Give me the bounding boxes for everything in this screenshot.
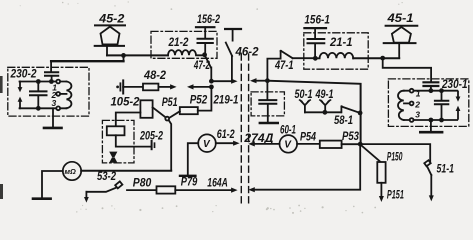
wire 48-2 bbox=[123, 86, 143, 88]
transformer winding 230-2 bbox=[67, 82, 72, 109]
coupling capacitor 230-1 bbox=[424, 82, 439, 90]
switch 47-1 bbox=[267, 50, 315, 81]
wire arrow 274Д to divider bbox=[243, 133, 279, 146]
svg-text:53-2: 53-2 bbox=[97, 171, 116, 183]
svg-text:21-1: 21-1 bbox=[329, 37, 352, 49]
resistor P150 bbox=[377, 152, 402, 183]
svg-text:P150: P150 bbox=[387, 152, 403, 164]
node top bus bbox=[49, 79, 54, 84]
tap 2 bbox=[51, 90, 67, 100]
wire arrow 164A to divider bbox=[175, 177, 237, 192]
svg-text:P151: P151 bbox=[387, 190, 404, 202]
resistor P80 bbox=[133, 177, 176, 193]
wire arrow from 47-1 to divider bbox=[250, 78, 267, 83]
arrow down 230-1 bbox=[456, 92, 461, 102]
svg-text:P51: P51 bbox=[162, 97, 178, 109]
svg-text:46-2: 46-2 bbox=[235, 47, 260, 59]
wire 205-2 to capacitor bbox=[116, 135, 150, 146]
wire jog down bbox=[123, 55, 125, 61]
svg-text:156-2: 156-2 bbox=[197, 14, 220, 26]
capacitor C 230-1 bbox=[435, 88, 448, 122]
svg-text:3: 3 bbox=[415, 110, 420, 120]
arrow up 230-1 bbox=[456, 106, 461, 119]
resistor P52 bbox=[169, 87, 211, 118]
arrow down 230-2 bbox=[18, 82, 23, 93]
svg-text:P80: P80 bbox=[133, 177, 152, 189]
contact 49-1 bbox=[315, 89, 334, 112]
wire meter to ground bbox=[42, 171, 63, 197]
voltmeter 60-1 bbox=[280, 125, 298, 153]
lamp X symbol bbox=[109, 152, 117, 163]
source symbol 48-2 bbox=[116, 80, 123, 93]
coupling capacitor bbox=[45, 61, 58, 81]
svg-text:1: 1 bbox=[416, 89, 421, 99]
wire arrow 48-2 to trunk bbox=[158, 84, 176, 89]
wire bottom bus 230-2 bbox=[20, 107, 67, 109]
switch 53-2 bbox=[84, 171, 122, 203]
wire relay to contact P51 bbox=[153, 107, 166, 117]
svg-text:58-1: 58-1 bbox=[334, 115, 353, 127]
svg-text:105-2: 105-2 bbox=[111, 96, 141, 108]
tap 3 bbox=[56, 106, 60, 110]
capacitor 205-2 bbox=[152, 141, 155, 149]
switch 51-1 bbox=[424, 160, 454, 201]
ground 230-2 bbox=[44, 108, 62, 128]
antenna 45-1 bbox=[384, 13, 418, 58]
node bottom bus bbox=[429, 118, 434, 123]
wire to coupling capacitor bbox=[51, 60, 123, 62]
svg-text:164А: 164А bbox=[207, 177, 228, 189]
wire trunk right half bbox=[267, 81, 360, 144]
svg-text:61-2: 61-2 bbox=[217, 129, 235, 141]
wire P51 down to meter line bbox=[169, 120, 172, 171]
svg-text:2: 2 bbox=[414, 100, 420, 110]
terminal bar P79 bbox=[180, 176, 198, 189]
svg-text:21-2: 21-2 bbox=[168, 37, 189, 49]
wire feed to 230-1 bbox=[383, 58, 431, 82]
wire contacts bus bbox=[305, 111, 341, 113]
box 230-1 bbox=[388, 79, 468, 127]
wire arrow P151 bbox=[379, 183, 404, 202]
svg-text:P53: P53 bbox=[342, 131, 359, 143]
wire bottom bus 230-1 bbox=[404, 119, 457, 121]
node coil/cap junction bbox=[202, 52, 207, 57]
wire arrow right to divider bbox=[211, 79, 237, 84]
transformer winding 230-1 bbox=[398, 91, 404, 120]
wire P54 to node P53 bbox=[342, 143, 358, 145]
wire 61-2 to terminal bbox=[188, 143, 198, 174]
coil 21-2 bbox=[168, 50, 205, 55]
svg-text:230-1: 230-1 bbox=[441, 79, 467, 91]
box 21-2 bbox=[151, 31, 217, 58]
svg-text:230-2: 230-2 bbox=[10, 68, 37, 80]
svg-text:P79: P79 bbox=[181, 176, 198, 188]
tap 1 right bbox=[410, 89, 414, 93]
divider dashed line right bbox=[248, 54, 250, 205]
svg-text:45-2: 45-2 bbox=[98, 14, 125, 26]
contact 50-1 bbox=[295, 89, 313, 112]
svg-text:156-1: 156-1 bbox=[304, 14, 330, 26]
wire return line to divider bbox=[248, 144, 360, 192]
node 58-1 to trunk bbox=[358, 111, 363, 116]
ground 230-1 bbox=[420, 120, 442, 132]
wire coil 21-1 to antenna 45-1 bbox=[353, 57, 399, 59]
svg-text:47-1: 47-1 bbox=[274, 60, 293, 72]
coil 21-1 bbox=[315, 53, 353, 58]
box 205-2 bbox=[102, 120, 134, 162]
box 230-2 bbox=[8, 67, 89, 116]
svg-text:мΩ: мΩ bbox=[65, 167, 77, 176]
wire arrow left from trunk bbox=[187, 84, 211, 89]
tap 3 right bbox=[410, 118, 414, 122]
arrow up 230-2 bbox=[18, 97, 23, 109]
resistor P54 bbox=[300, 131, 342, 148]
wire arrow 61-2 to divider bbox=[216, 141, 240, 146]
svg-text:47-2: 47-2 bbox=[193, 60, 210, 72]
voltmeter 61-2 bbox=[198, 129, 235, 152]
svg-text:219-1: 219-1 bbox=[213, 95, 239, 107]
wire relay to box 205-2 bbox=[116, 113, 141, 127]
svg-text:45-1: 45-1 bbox=[386, 13, 413, 25]
node top bus 230-1 bbox=[429, 88, 434, 93]
capacitor 156-2 bbox=[196, 14, 220, 55]
svg-text:P52: P52 bbox=[190, 95, 208, 107]
capacitor 49-1 bbox=[259, 81, 276, 123]
node trunk upper bbox=[209, 79, 214, 84]
antenna 45-2 bbox=[95, 14, 125, 56]
relay 105-2 bbox=[111, 96, 153, 117]
node trunk lower bbox=[209, 85, 214, 90]
node P53 bbox=[342, 131, 363, 147]
switch 46-2 bbox=[225, 29, 259, 81]
svg-text:50-1: 50-1 bbox=[295, 89, 313, 101]
tap 1 bbox=[56, 80, 60, 84]
contact P51 bbox=[162, 97, 178, 121]
node 156-1 junction bbox=[313, 56, 318, 61]
wire 60-1 to P54 bbox=[297, 143, 320, 145]
wire top bus 230-1 bbox=[404, 90, 457, 92]
capacitor 156-1 bbox=[304, 14, 330, 58]
svg-text:3: 3 bbox=[52, 98, 57, 108]
svg-text:P54: P54 bbox=[300, 131, 316, 143]
relay coil 205-2 bbox=[107, 126, 125, 135]
tap 2 right bbox=[404, 100, 420, 110]
svg-text:48-2: 48-2 bbox=[143, 70, 167, 82]
wire meter to P51 drop bbox=[81, 170, 171, 172]
box 21-1 bbox=[304, 33, 368, 69]
wire P53 to switch 51-1 bbox=[360, 144, 430, 163]
wire 164A line left bbox=[127, 189, 157, 191]
node contacts junction bbox=[323, 110, 328, 115]
svg-text:51-1: 51-1 bbox=[437, 164, 455, 176]
node 47-1 bbox=[265, 78, 270, 83]
capacitor C 230-2 bbox=[30, 79, 47, 111]
wire P53 to P150 bbox=[362, 146, 381, 163]
ground megohmmeter bbox=[33, 197, 51, 200]
box 49-1 bbox=[251, 92, 284, 116]
terminal bar 49-1 bbox=[260, 122, 278, 124]
wire antenna 45-2 to coil 21-2 bbox=[107, 54, 168, 56]
resistor 48-2 bbox=[143, 70, 167, 90]
node feed junction bbox=[380, 56, 385, 61]
wire top bus 230-2 bbox=[20, 81, 67, 83]
divider dashed line left bbox=[240, 54, 242, 205]
megohmmeter bbox=[63, 162, 81, 180]
switch 58-1 bbox=[334, 105, 360, 127]
switch 47-2 bbox=[193, 55, 211, 81]
node junction bbox=[121, 53, 126, 58]
